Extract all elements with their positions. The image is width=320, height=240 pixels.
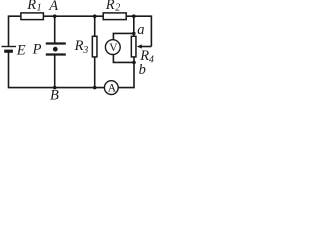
- svg-text:V: V: [109, 42, 118, 54]
- resistor R2: [103, 13, 126, 20]
- junction bottom R3: [93, 86, 97, 90]
- svg-text:P: P: [32, 41, 42, 57]
- wire ammeter to bottom-right corner up to R4: [118, 57, 134, 88]
- battery E: [2, 47, 17, 52]
- wire R2 to top-right corner, down right edge: [126, 16, 151, 46]
- wire R3 branch top: [94, 16, 96, 36]
- svg-text:a: a: [137, 22, 144, 38]
- junction top R3: [93, 14, 97, 18]
- ammeter A: [104, 81, 118, 95]
- wiper arrow of R4: [137, 44, 152, 48]
- svg-text:R: R: [105, 0, 115, 13]
- node A: [53, 14, 57, 18]
- capacitor plates: [46, 44, 66, 55]
- svg-text:B: B: [50, 87, 59, 101]
- wire R4 branch top: [133, 16, 135, 36]
- wire R3 branch bottom: [94, 57, 96, 88]
- svg-text:E: E: [16, 43, 26, 59]
- particle P (dot between plates): [53, 47, 58, 52]
- resistor R4 (rheostat): [131, 36, 136, 57]
- wire voltmeter top connection: [113, 33, 133, 40]
- wire bottom: left corner to ammeter: [9, 52, 105, 87]
- junction voltmeter top: [132, 32, 136, 36]
- svg-text:3: 3: [82, 45, 88, 56]
- voltmeter V: [105, 40, 120, 55]
- svg-text:A: A: [48, 0, 58, 14]
- resistor R3: [92, 36, 97, 57]
- resistor R1: [21, 13, 44, 20]
- svg-text:R: R: [74, 38, 84, 54]
- svg-text:R: R: [26, 0, 36, 13]
- wire top-left corner to R1: [9, 16, 21, 46]
- wire capacitor bottom plate down to node B: [54, 55, 56, 87]
- node B: [53, 86, 57, 90]
- wire branch A down to capacitor top plate: [54, 16, 56, 43]
- wire R1 to R2 (top wire middle): [43, 15, 103, 17]
- junction top R4: [132, 14, 136, 18]
- junction voltmeter bottom: [132, 61, 136, 65]
- svg-text:2: 2: [115, 2, 120, 13]
- svg-text:b: b: [139, 62, 146, 78]
- svg-text:A: A: [108, 83, 117, 95]
- wire voltmeter bottom connection: [113, 54, 134, 62]
- svg-text:1: 1: [37, 2, 42, 13]
- svg-text:4: 4: [149, 55, 154, 66]
